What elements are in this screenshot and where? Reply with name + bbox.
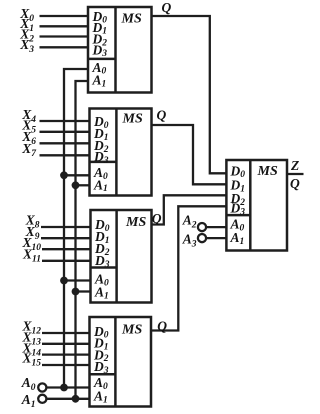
U5 pin labels D0 D1 D2 D3 A0 A1 and MS bbox=[230, 163, 278, 246]
wire A1 input terminal to U4.A1 bbox=[46, 398, 89, 400]
node label X3 bbox=[19, 37, 34, 55]
U2 pin labels D0 D1 D2 D3 A0 A1 and MS bbox=[93, 112, 143, 195]
output label Q of U2 bbox=[157, 108, 167, 123]
multiplexer U1 (MS, inputs X0-X3) bbox=[88, 7, 152, 93]
input terminal A0 bbox=[38, 383, 46, 391]
svg-text:Q: Q bbox=[157, 319, 167, 334]
wire X7 to U2.D3 bbox=[40, 154, 90, 156]
wire A0 input terminal to U4.A0 bbox=[46, 386, 89, 388]
node label X8 bbox=[25, 213, 40, 231]
node label X13 bbox=[21, 330, 41, 348]
node label X2 bbox=[19, 26, 34, 44]
wire A2 terminal to U5.A0 bbox=[206, 226, 226, 228]
svg-text:A3: A3 bbox=[182, 232, 197, 250]
svg-text:MS: MS bbox=[121, 323, 142, 338]
svg-text:MS: MS bbox=[125, 215, 146, 230]
wire X15 to U4.D3 bbox=[42, 364, 90, 366]
svg-text:Q: Q bbox=[157, 108, 167, 123]
node label X12 bbox=[21, 319, 41, 337]
wire U5 output Z bbox=[287, 173, 304, 175]
wire X9 to U3.D1 bbox=[41, 237, 91, 239]
U3 pin labels D0 D1 D2 D3 A0 A1 and MS bbox=[94, 215, 146, 301]
wire X6 to U2.D2 bbox=[40, 142, 90, 144]
svg-text:MS: MS bbox=[257, 164, 278, 179]
wire bus A0 branch to U2.A0 bbox=[64, 174, 90, 176]
svg-text:Q: Q bbox=[152, 211, 162, 226]
address bus A1: vertical line with branch to U1.A1 bbox=[76, 81, 89, 399]
node label X10 bbox=[21, 235, 41, 253]
wire U2.Q to U5.D1 bbox=[152, 125, 227, 184]
wire bus A1 branch to U2.A1 bbox=[76, 184, 90, 186]
node label X11 bbox=[22, 247, 41, 265]
svg-text:Z: Z bbox=[290, 158, 299, 173]
input terminal A1 bbox=[38, 395, 46, 403]
svg-text:A2: A2 bbox=[182, 213, 197, 231]
wire X13 to U4.D1 bbox=[42, 343, 90, 345]
output label Z of U5 bbox=[290, 158, 299, 173]
multiplexer U3 (MS, inputs X8-X11) bbox=[91, 210, 152, 303]
U1 pin labels D0 D1 D2 D3 A0 A1 and MS bbox=[92, 9, 142, 90]
node label A1 input bbox=[21, 392, 36, 410]
svg-text:Q: Q bbox=[162, 0, 172, 15]
node label X5 bbox=[21, 118, 36, 136]
svg-text:A1: A1 bbox=[21, 392, 36, 410]
wire bus A1 branch to U3.A1 bbox=[76, 290, 91, 292]
output label Q-bar of U5 bbox=[290, 176, 300, 191]
wire X5 to U2.D1 bbox=[40, 131, 90, 133]
wire X8 to U3.D0 bbox=[41, 226, 91, 228]
wire X10 to U3.D2 bbox=[42, 248, 91, 250]
multiplexer U4 (MS, inputs X12-X15) bbox=[90, 317, 152, 407]
junction dot bus A0 / A0 input wire bbox=[60, 384, 68, 392]
multiplexer U2 (MS, inputs X4-X7) bbox=[90, 109, 152, 196]
svg-text:MS: MS bbox=[122, 112, 143, 127]
wire X2 to U1.D2 bbox=[40, 35, 89, 37]
wire X0 to U1.D0 bbox=[40, 15, 89, 17]
node label A2 input bbox=[182, 213, 197, 231]
junction dot bus A0 / U2.A0 bbox=[60, 171, 68, 179]
output label Q of U1 bbox=[162, 0, 172, 15]
node label X7 bbox=[21, 141, 37, 159]
input terminal A3 bbox=[198, 234, 206, 242]
wire U1.Q to U5.D0 bbox=[152, 16, 227, 173]
wire X4 to U2.D0 bbox=[40, 120, 90, 122]
node label X14 bbox=[21, 340, 41, 358]
wire U3.Q to U5.D2 bbox=[152, 195, 227, 224]
node label X6 bbox=[21, 129, 36, 147]
svg-text:MS: MS bbox=[121, 12, 142, 27]
wire X3 to U1.D3 bbox=[40, 46, 89, 48]
wire A3 terminal to U5.A1 bbox=[206, 237, 226, 239]
output label Q of U4 bbox=[157, 319, 167, 334]
node label A0 input bbox=[21, 375, 36, 393]
node label A3 input bbox=[182, 232, 197, 250]
junction dot bus A1 / A1 input wire bbox=[72, 395, 80, 403]
node label X15 bbox=[21, 351, 41, 369]
address bus A0: vertical line with branch to U1.A0 bbox=[64, 69, 88, 388]
input terminal A2 bbox=[198, 223, 206, 231]
wire U4.Q to U5.D3 bbox=[151, 206, 226, 330]
junction dot bus A1 / U2.A1 bbox=[72, 181, 80, 189]
node label X0 bbox=[19, 6, 34, 24]
node label X4 bbox=[21, 107, 36, 125]
junction dot bus A1 / U3.A1 bbox=[72, 288, 80, 296]
multiplexer U5 output stage (MS, output Z) bbox=[226, 160, 287, 251]
svg-text:Q: Q bbox=[290, 176, 300, 191]
U4 pin labels D0 D1 D2 D3 A0 A1 and MS bbox=[93, 323, 142, 406]
output label Q of U3 bbox=[152, 211, 162, 226]
wire X12 to U4.D0 bbox=[42, 332, 90, 334]
wire bus A0 branch to U3.A0 bbox=[64, 279, 91, 281]
node label X1 bbox=[19, 16, 34, 34]
svg-text:A0: A0 bbox=[21, 375, 36, 393]
junction dot bus A0 / U3.A0 bbox=[60, 277, 68, 285]
wire X1 to U1.D1 bbox=[40, 25, 89, 27]
node label X9 bbox=[25, 224, 40, 242]
wire X14 to U4.D2 bbox=[42, 353, 90, 355]
wire X11 to U3.D3 bbox=[42, 260, 91, 262]
